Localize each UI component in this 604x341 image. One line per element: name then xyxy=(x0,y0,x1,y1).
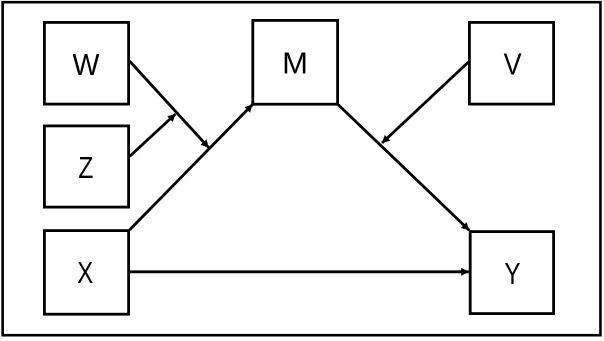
svg-text:Z: Z xyxy=(78,150,93,185)
svg-text:M: M xyxy=(282,45,308,80)
box Y xyxy=(470,232,553,314)
box X xyxy=(44,231,128,315)
arrow V to path M-Y xyxy=(382,62,469,143)
arrow Z to path W xyxy=(130,114,176,157)
svg-text:Y: Y xyxy=(504,256,520,291)
box M xyxy=(253,20,338,104)
arrow X to M xyxy=(130,105,253,231)
svg-text:X: X xyxy=(77,255,93,290)
box W xyxy=(44,22,128,104)
box V xyxy=(469,22,553,104)
arrow W to path X-M xyxy=(130,61,209,148)
arrow X to Y xyxy=(130,270,469,273)
svg-text:W: W xyxy=(73,47,101,82)
svg-text:V: V xyxy=(504,46,522,81)
arrow M to Y xyxy=(338,105,469,231)
box Z xyxy=(44,126,128,207)
